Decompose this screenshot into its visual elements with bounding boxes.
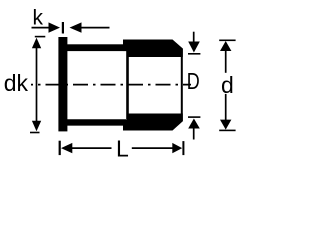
svg-text:k: k <box>33 6 44 29</box>
svg-text:d: d <box>221 72 234 98</box>
svg-text:dk: dk <box>4 70 29 96</box>
svg-text:D: D <box>187 69 200 95</box>
svg-text:L: L <box>116 135 129 161</box>
